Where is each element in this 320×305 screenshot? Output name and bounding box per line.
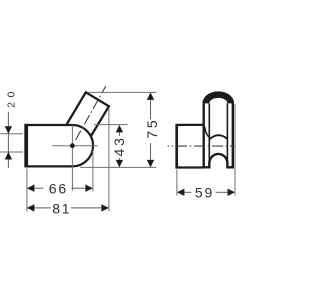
dimension 66 — [27, 180, 93, 196]
extension line 20 bottom — [0, 151, 23, 153]
extension line: cylinder right down (81 right) — [108, 108, 110, 212]
bore bottom arc seen through cutout — [209, 135, 227, 139]
dimension 20 — [5, 87, 18, 168]
svg-text:81: 81 — [52, 200, 71, 216]
extension line: arc right down (66 right) — [92, 150, 94, 192]
fillet curve plate-to-holder — [205, 126, 210, 137]
dimension 81 — [27, 200, 109, 216]
svg-text:59: 59 — [195, 184, 214, 200]
extension line: wall face down (66/81 left) — [26, 169, 28, 212]
wall plate (front-right view) — [175, 124, 203, 169]
extension line: body top extended (43 top) — [94, 124, 128, 126]
svg-text:75: 75 — [144, 118, 160, 139]
crosshair vertical centerline — [71, 125, 73, 190]
center dot — [70, 143, 75, 148]
angled cylinder (side view) — [66, 92, 109, 136]
svg-text:20: 20 — [7, 87, 18, 108]
svg-text:43: 43 — [111, 135, 127, 156]
extension line: body bottom extended (43/75 bottom) — [80, 166, 156, 168]
holder inner wall lines — [209, 103, 227, 165]
dash-dot centerline of cylinder — [75, 86, 106, 141]
wall plate bar (side view) — [24, 124, 28, 168]
dimension 75 — [144, 92, 160, 167]
holder tube outline (right view) — [204, 103, 233, 167]
svg-text:66: 66 — [49, 180, 68, 196]
extension line: cylinder top (75 top) — [88, 91, 157, 93]
holder top rim band — [203, 91, 235, 103]
crosshair horizontal centerline — [52, 145, 98, 147]
extension line 59 left — [176, 170, 178, 196]
extension line 20 top — [0, 133, 23, 135]
dimension 43 — [111, 125, 127, 167]
dash-dot centerline (right view) — [168, 145, 236, 147]
body outline (side view, stadium shape) — [25, 125, 93, 166]
extension line 59 right — [234, 104, 236, 196]
dimension 59 — [177, 184, 235, 200]
